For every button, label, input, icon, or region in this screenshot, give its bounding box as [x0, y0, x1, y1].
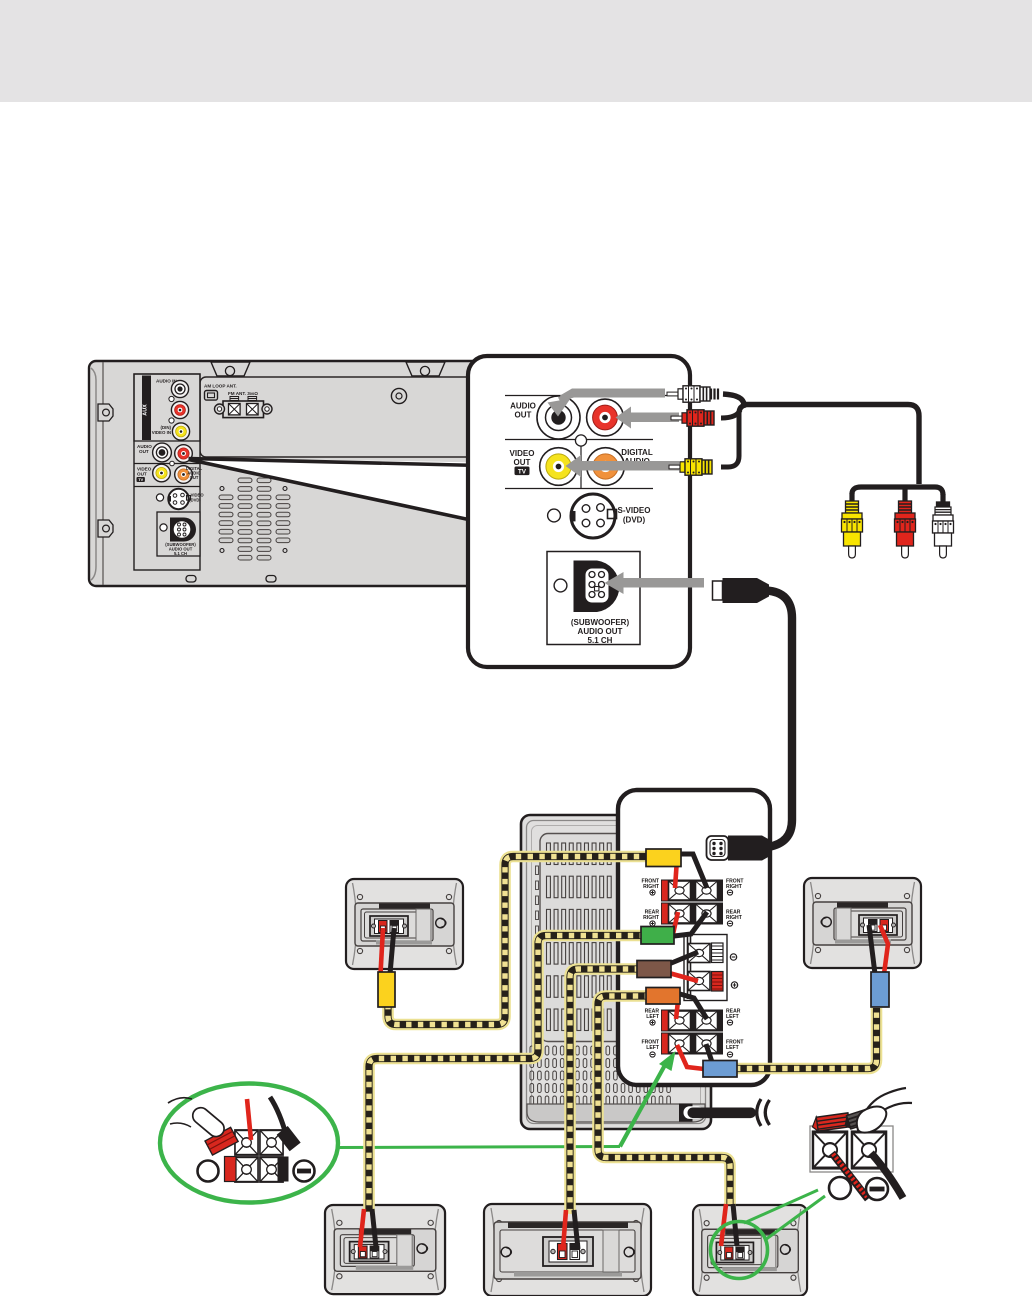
section line 3 — [505, 488, 653, 490]
SUBWOOFER AUDIO OUT box — [157, 512, 200, 556]
cord break mark — [757, 1099, 761, 1126]
S-VIDEO connector — [571, 494, 615, 538]
wire red to REAR LEFT + — [676, 1001, 678, 1019]
S-VIDEO connector — [168, 489, 188, 509]
svg-text:AUX: AUX — [143, 404, 149, 416]
green circle on bottom-right speaker terminal — [711, 1222, 768, 1279]
svg-text:AM LOOP ANT.: AM LOOP ANT. — [204, 384, 237, 389]
FRONT RIGHT terminal row — [661, 880, 723, 902]
AUX IN sub box — [134, 374, 200, 441]
wire: rear-left speaker cable (orange tag) — [598, 996, 730, 1206]
subwoofer inner vent panel — [540, 834, 650, 1042]
wire black to REAR RIGHT - — [674, 912, 707, 936]
bottom-left speaker: wire red — [360, 1209, 364, 1247]
bottom-right speaker: wire red — [721, 1204, 726, 1246]
terminal block — [543, 1237, 593, 1266]
subwoofer rear body — [521, 815, 711, 1129]
vent slot grid — [547, 843, 612, 1031]
5.1 socket plug on overlay — [728, 836, 770, 861]
svg-text:S-VIDEO: S-VIDEO — [618, 506, 651, 515]
wire: rear-right speaker cable (green tag) — [369, 936, 645, 1213]
wire: woofer speaker cable (brown tag) — [570, 969, 640, 1214]
left dash column — [536, 866, 539, 935]
svg-text:FM ANT. 300Ω: FM ANT. 300Ω — [228, 391, 258, 396]
AUDIO OUT red jack — [175, 445, 193, 463]
wire black to REAR LEFT - — [680, 994, 707, 1019]
mid-left speaker: wire black — [390, 928, 394, 974]
svg-text:AUDIO: AUDIO — [510, 402, 536, 411]
callout panel box — [468, 356, 690, 667]
screw — [169, 396, 174, 401]
keyhole left — [501, 1247, 511, 1257]
wire: yellow plug branch — [721, 405, 746, 467]
wire: AV cable main run — [723, 394, 919, 484]
subwoofer D connector — [170, 518, 196, 542]
circle symbol O — [198, 1161, 219, 1182]
wire: front-right speaker cable (yellow tag) — [388, 857, 650, 1025]
svg-text:OUT: OUT — [139, 449, 149, 454]
hanging RCA plug white — [933, 502, 954, 558]
hex mounting tab left 1 — [98, 404, 113, 421]
bottom-middle speaker: wire black — [574, 1210, 578, 1249]
svg-text:(DVD): (DVD) — [189, 497, 201, 502]
brown sleeve — [637, 961, 671, 978]
red lever pressed (top-left) — [205, 1127, 238, 1155]
RCA plug red (into AUDIO OUT R) — [671, 410, 714, 426]
bottom-right speaker: wire black — [733, 1204, 737, 1246]
mounting tab top 1 — [211, 362, 250, 376]
AM loop connector — [205, 391, 218, 401]
REAR RIGHT terminal row — [661, 903, 723, 925]
wire: front-left speaker cable (blue tag) — [735, 1008, 877, 1069]
FRONT LEFT terminal row — [661, 1033, 723, 1055]
mounting tab top 2 — [406, 362, 445, 376]
svg-text:LEFT: LEFT — [646, 1045, 660, 1051]
black wire out — [871, 1153, 903, 1198]
wire: 5.1 subwoofer cable — [766, 591, 792, 848]
plus symbol — [731, 982, 737, 988]
red striped lever — [712, 972, 724, 992]
mid-right speaker: wire black — [869, 925, 875, 974]
speaker: bottom middle (center) — [484, 1204, 651, 1296]
wire black to FRONT RIGHT - — [681, 854, 707, 888]
red striped wire out — [832, 1153, 868, 1199]
S-VIDEO screw — [156, 494, 163, 501]
red lever pressed — [811, 1113, 850, 1132]
DIGITAL AUDIO OUT orange jack — [175, 466, 193, 484]
circle symbol O — [829, 1177, 851, 1199]
jack VIDEO OUT (yellow) — [540, 448, 578, 486]
svg-text:RIGHT: RIGHT — [726, 915, 743, 921]
subwoofer 5.1 D connector — [574, 561, 620, 613]
green arrowhead — [659, 1051, 676, 1071]
AUX white jack — [171, 380, 188, 397]
wire: red plug branch — [721, 410, 740, 418]
minus symbol — [730, 954, 736, 960]
wire: splitter bar — [852, 487, 943, 495]
DVD recorder rear panel body — [89, 361, 480, 586]
mid-left yellow sleeve — [378, 972, 395, 1007]
svg-text:VIDEO: VIDEO — [510, 449, 535, 458]
keyhole right — [624, 1247, 634, 1257]
blue sleeve — [703, 1061, 737, 1078]
hanging RCA plug red — [895, 501, 916, 558]
wire black to woofer top terminal — [669, 952, 698, 964]
svg-text:(SUBWOOFER): (SUBWOOFER) — [571, 618, 630, 627]
left flange line — [102, 362, 104, 585]
wire red to FRONT RIGHT + — [675, 859, 677, 888]
svg-text:TV: TV — [518, 469, 527, 476]
AUX black strip — [142, 376, 151, 441]
speaker: bottom left — [325, 1205, 445, 1294]
gray arrow to red jack — [616, 407, 680, 429]
svg-text:OUT: OUT — [515, 411, 532, 420]
divider — [134, 463, 200, 465]
black lever lifted (top-right) — [277, 1126, 301, 1151]
bottom-middle speaker: wire red — [563, 1210, 566, 1249]
wire black to FRONT LEFT - — [706, 1044, 712, 1062]
SUBWOOFER box — [547, 552, 640, 645]
black lever pressed — [842, 1107, 878, 1131]
gray arrow to yellow jack — [566, 455, 680, 477]
circle symbol minus — [294, 1161, 315, 1182]
mid-right blue sleeve — [871, 972, 889, 1007]
circle symbol minus — [866, 1178, 888, 1200]
bottom-left speaker: wire black — [372, 1209, 376, 1247]
jack AUDIO OUT R (red) — [587, 399, 624, 436]
bottom foot 1 — [186, 576, 196, 583]
middle woofer terminal box — [684, 935, 727, 1001]
svg-text:LEFT: LEFT — [726, 1014, 740, 1020]
small oval vents bottom — [530, 1046, 670, 1105]
VIDEO OUT yellow jack — [153, 464, 171, 482]
AUDIO OUT white jack — [153, 443, 172, 462]
hand pressing lever — [168, 1098, 192, 1103]
mid-right speaker: wire red — [880, 925, 888, 974]
section line top — [505, 395, 688, 397]
AUX red jack — [171, 401, 188, 418]
RCA plug yellow (into VIDEO OUT) — [669, 459, 712, 475]
orange sleeve — [646, 988, 680, 1005]
wire red to woofer bottom terminal — [669, 973, 698, 981]
power cord — [688, 1108, 757, 1119]
svg-text:(DVD): (DVD) — [623, 515, 646, 524]
svg-text:OUT: OUT — [190, 475, 199, 480]
vent slots — [219, 478, 290, 560]
yellow sleeve — [646, 849, 681, 867]
connector column box — [134, 374, 200, 570]
svg-text:OUT: OUT — [514, 458, 531, 467]
speaker: mid left (front right speaker) — [346, 879, 463, 969]
hex mounting tab left 2 — [98, 520, 113, 537]
red lever side (bottom-left) — [225, 1157, 237, 1182]
header band — [0, 0, 1032, 102]
bottom plinth band — [527, 1104, 705, 1122]
svg-text:DIGITAL: DIGITAL — [621, 448, 653, 457]
hanging RCA plug yellow — [842, 501, 863, 558]
svg-text:RIGHT: RIGHT — [726, 884, 743, 890]
svg-text:RIGHT: RIGHT — [643, 915, 660, 921]
speaker: bottom right — [693, 1205, 807, 1296]
svg-text:VIDEO IN: VIDEO IN — [152, 430, 171, 435]
vent corner screws — [220, 487, 224, 491]
svg-text:LEFT: LEFT — [646, 1014, 660, 1020]
green arrow shaft to FRONT LEFT terminal — [620, 1065, 665, 1147]
svg-text:LEFT: LEFT — [726, 1045, 740, 1051]
wire red to REAR RIGHT + — [673, 912, 678, 934]
RCA plug white (into AUDIO OUT L) — [667, 386, 718, 402]
screw — [169, 418, 174, 423]
striped speaker cables — [369, 857, 877, 1215]
REAR LEFT terminal row — [661, 1010, 723, 1032]
svg-text:RIGHT: RIGHT — [643, 884, 660, 890]
svg-text:5.1 CH: 5.1 CH — [174, 551, 187, 556]
svg-text:5.1 CH: 5.1 CH — [588, 636, 613, 645]
gray arrow to white jack (bent) — [560, 389, 665, 401]
jack DIGITAL AUDIO OUT (orange) — [587, 448, 625, 486]
terminal overlay callout — [618, 790, 770, 1085]
FM terminal block — [230, 397, 239, 405]
wire red to FRONT LEFT + — [677, 1045, 704, 1069]
divider — [134, 486, 200, 488]
hand fingers — [864, 1088, 906, 1114]
screw hole right — [391, 388, 406, 403]
jack AUDIO OUT L (white) — [537, 396, 580, 439]
terminal 2x2 inside ellipse — [235, 1130, 258, 1155]
zoom wedge — [189, 458, 481, 525]
green ellipse callout — [160, 1084, 338, 1203]
svg-text:AUDIO OUT: AUDIO OUT — [578, 627, 623, 636]
green leader line from ellipse — [337, 1147, 620, 1148]
green sleeve — [641, 927, 674, 945]
black wire into terminal — [270, 1097, 287, 1138]
big recessed panel — [200, 377, 472, 457]
black lever side (bottom-right) — [278, 1157, 289, 1182]
speaker: mid right (front left speaker) mirrored — [804, 878, 921, 968]
mid-left speaker: wire red — [381, 928, 384, 974]
green leader lines to circle — [744, 1190, 818, 1223]
bottom foot 2 — [266, 576, 276, 583]
power cord strain bracket — [679, 1104, 693, 1122]
5.1 DIN plug at callout — [713, 581, 723, 600]
hand detail bottom right: terminal plate — [810, 1126, 893, 1172]
S-VIDEO screw — [548, 509, 561, 522]
gray arrow to subwoofer connector — [605, 572, 705, 594]
section line 2 — [505, 439, 653, 441]
svg-text:OUT: OUT — [137, 472, 147, 477]
svg-text:TV: TV — [138, 478, 143, 482]
white striped lever — [712, 943, 724, 963]
AUX yellow jack — [172, 423, 189, 440]
red wire into terminal — [247, 1099, 251, 1140]
